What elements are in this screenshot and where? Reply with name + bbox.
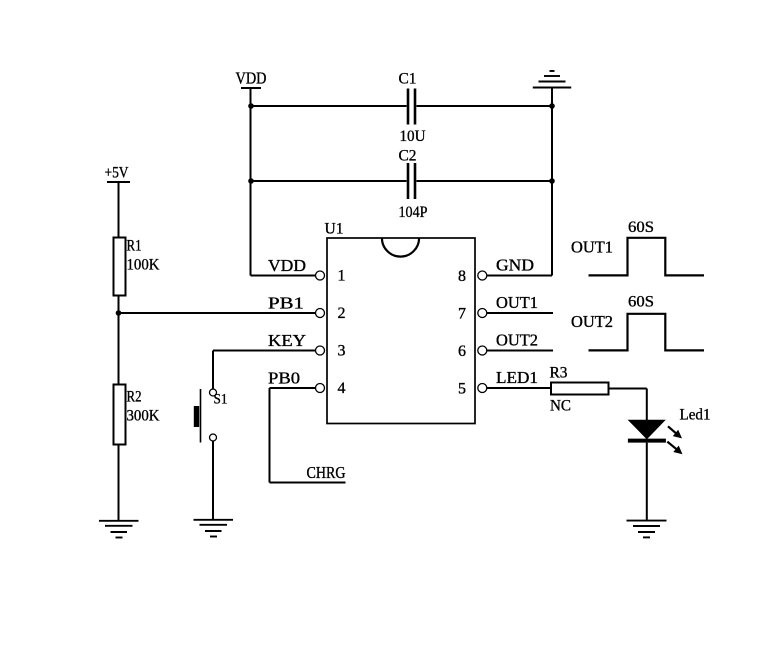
- svg-text:100K: 100K: [127, 257, 160, 274]
- pin 8 circle: [478, 271, 487, 280]
- wire R1 bottom to R2 top: [118, 296, 120, 385]
- wire pin8 GND: [487, 275, 552, 277]
- IC U1 notch: [382, 238, 419, 257]
- svg-text:1: 1: [338, 268, 346, 285]
- wire pin1 VDD: [251, 275, 316, 277]
- svg-text:R2: R2: [127, 389, 142, 406]
- pin 6 circle: [478, 346, 487, 355]
- svg-text:3: 3: [338, 343, 346, 360]
- svg-text:5: 5: [458, 381, 466, 398]
- pin 4 circle: [316, 384, 325, 393]
- wire PB0 to CHRG: [270, 388, 346, 483]
- svg-text:R1: R1: [127, 238, 142, 255]
- svg-text:104P: 104P: [399, 204, 428, 221]
- svg-text:+5V: +5V: [105, 165, 129, 182]
- pin 1 circle: [316, 271, 325, 280]
- ground (top right): [533, 71, 571, 88]
- junction at VDD rail 1 left: [248, 103, 254, 109]
- junction at R1/R2 PB1 tap: [116, 310, 122, 316]
- junction at rail 2 right: [549, 178, 555, 184]
- svg-text:OUT1: OUT1: [496, 293, 538, 312]
- pin 2 circle: [316, 309, 325, 318]
- power flag VDD (top): [241, 88, 261, 106]
- ground (below S1): [194, 520, 234, 537]
- svg-text:60S: 60S: [628, 219, 654, 236]
- svg-text:LED1: LED1: [496, 368, 538, 387]
- wire right vertical (ground to pin8): [551, 88, 553, 276]
- svg-text:NC: NC: [550, 398, 571, 415]
- svg-text:KEY: KEY: [268, 331, 306, 350]
- svg-text:C1: C1: [399, 71, 417, 88]
- wire R3 to LED: [609, 389, 647, 422]
- switch S1: [194, 389, 217, 443]
- svg-text:VDD: VDD: [236, 69, 267, 88]
- wire PB1: [119, 312, 316, 314]
- svg-text:10U: 10U: [400, 128, 426, 145]
- resistor R2: [114, 385, 126, 445]
- svg-text:7: 7: [458, 306, 466, 323]
- wire top rail 1 (left segment): [251, 105, 407, 107]
- op IC U1 body: [327, 238, 475, 424]
- svg-text:GND: GND: [496, 256, 534, 275]
- waveform OUT2: [589, 314, 705, 351]
- wire left vertical (VDD rail to pin1): [250, 88, 252, 276]
- junction at rail 2 left: [248, 178, 254, 184]
- pin 7 circle: [478, 309, 487, 318]
- svg-text:CHRG: CHRG: [307, 463, 346, 482]
- svg-text:OUT2: OUT2: [571, 312, 613, 331]
- capacitor C1: [408, 89, 415, 125]
- svg-text:8: 8: [458, 268, 466, 285]
- ground (below R2): [99, 521, 139, 538]
- svg-text:OUT1: OUT1: [571, 238, 613, 257]
- svg-text:C2: C2: [399, 148, 417, 165]
- svg-text:PB1: PB1: [268, 294, 304, 313]
- svg-text:300K: 300K: [127, 408, 160, 425]
- wire pin6 OUT2: [487, 350, 553, 352]
- wire top rail 2 (left segment): [251, 180, 407, 182]
- capacitor C2: [408, 163, 415, 199]
- wire LED to ground: [646, 443, 648, 520]
- wire S1 to ground: [212, 441, 214, 520]
- power flag +5V: [107, 182, 130, 238]
- svg-text:2: 2: [338, 305, 346, 322]
- pin 5 circle: [478, 384, 487, 393]
- wire R2 bottom to ground: [118, 445, 120, 521]
- resistor R3: [551, 383, 609, 395]
- svg-text:U1: U1: [325, 221, 344, 238]
- waveform OUT1: [589, 238, 705, 276]
- svg-text:60S: 60S: [628, 294, 654, 311]
- pin 3 circle: [316, 346, 325, 355]
- wire pin7 OUT1: [487, 312, 553, 314]
- svg-text:OUT2: OUT2: [496, 331, 538, 350]
- svg-text:R3: R3: [550, 365, 568, 382]
- junction at rail 1 right: [549, 103, 555, 109]
- svg-text:S1: S1: [214, 392, 228, 408]
- wire KEY: [213, 351, 316, 390]
- svg-text:6: 6: [458, 343, 466, 360]
- resistor R1: [114, 238, 126, 296]
- wire top rail 2 (right segment): [417, 180, 553, 182]
- wire pin5 LED1: [487, 387, 551, 389]
- svg-text:VDD: VDD: [268, 256, 306, 275]
- LED Led1: [628, 420, 683, 454]
- wire top rail 1 (right segment): [417, 105, 553, 107]
- svg-text:4: 4: [338, 380, 346, 397]
- svg-text:PB0: PB0: [268, 369, 300, 388]
- svg-text:Led1: Led1: [680, 407, 711, 424]
- ground (below LED): [627, 521, 667, 538]
